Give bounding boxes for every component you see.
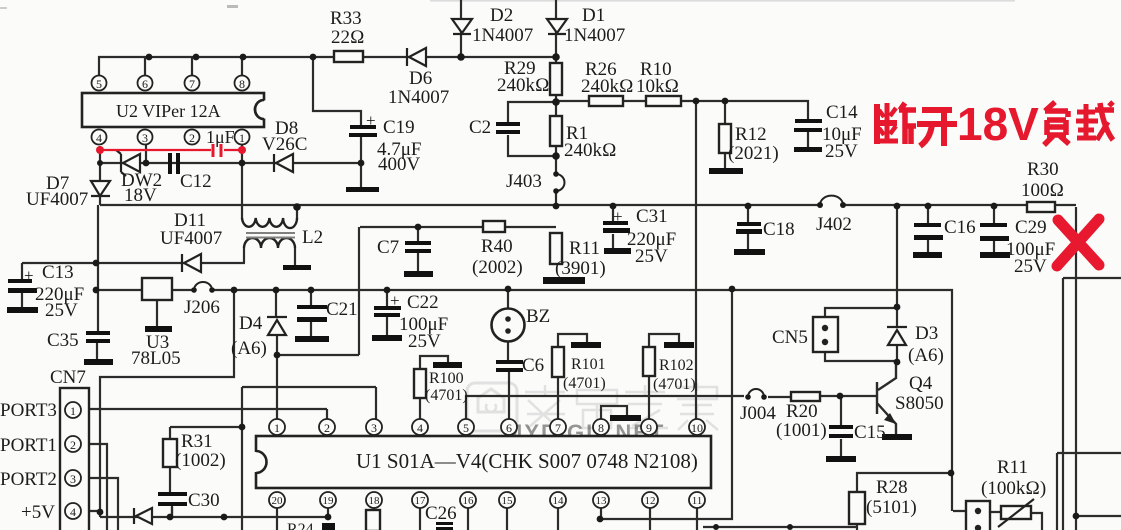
svg-text:(1001): (1001) xyxy=(776,420,827,441)
svg-text:(4701): (4701) xyxy=(425,387,468,404)
svg-text:L2: L2 xyxy=(302,227,323,248)
svg-text:C16: C16 xyxy=(944,217,976,238)
svg-text:1: 1 xyxy=(239,131,245,145)
svg-text:(3901): (3901) xyxy=(555,258,606,279)
svg-text:25V: 25V xyxy=(408,331,441,352)
svg-text:3: 3 xyxy=(371,421,377,435)
svg-text:R101: R101 xyxy=(571,356,606,373)
svg-text:D6: D6 xyxy=(409,68,432,89)
svg-text:J403: J403 xyxy=(506,171,542,192)
svg-text:J004: J004 xyxy=(740,403,776,424)
svg-text:V26C: V26C xyxy=(262,134,307,155)
svg-text:+5V: +5V xyxy=(21,502,55,523)
svg-text:(4701): (4701) xyxy=(563,375,606,392)
svg-text:10: 10 xyxy=(691,421,703,435)
svg-text:(2021): (2021) xyxy=(728,143,779,164)
svg-text:(A6): (A6) xyxy=(908,345,944,366)
svg-text:(100kΩ): (100kΩ) xyxy=(981,478,1046,499)
svg-text:6: 6 xyxy=(142,77,148,91)
svg-text:1: 1 xyxy=(274,421,280,435)
svg-text:4: 4 xyxy=(96,131,102,145)
svg-text:1N4007: 1N4007 xyxy=(564,25,625,46)
svg-text:11: 11 xyxy=(692,495,703,507)
svg-text:C2: C2 xyxy=(469,117,491,138)
svg-text:240kΩ: 240kΩ xyxy=(497,75,550,96)
svg-text:C14: C14 xyxy=(826,102,858,123)
svg-text:3: 3 xyxy=(142,131,148,145)
svg-text:J206: J206 xyxy=(184,297,220,318)
svg-text:U2 VIPer 12A: U2 VIPer 12A xyxy=(116,101,221,121)
svg-text:2: 2 xyxy=(70,438,76,452)
svg-text:C31: C31 xyxy=(636,206,668,227)
svg-text:+: + xyxy=(24,266,34,285)
svg-text:Q4: Q4 xyxy=(909,373,933,394)
svg-text:1N4007: 1N4007 xyxy=(388,87,449,108)
svg-text:CN5: CN5 xyxy=(772,327,808,348)
svg-text:400V: 400V xyxy=(378,154,421,175)
svg-text:2: 2 xyxy=(189,131,195,145)
svg-text:2: 2 xyxy=(324,421,330,435)
svg-text:16: 16 xyxy=(463,495,475,507)
svg-text:C13: C13 xyxy=(42,262,74,283)
svg-text:18V: 18V xyxy=(957,98,1039,150)
svg-text:(4701): (4701) xyxy=(653,376,696,393)
svg-text:D4: D4 xyxy=(239,313,263,334)
svg-text:5: 5 xyxy=(463,421,469,435)
svg-text:C35: C35 xyxy=(47,330,79,351)
svg-text:19: 19 xyxy=(323,495,335,507)
svg-text:15: 15 xyxy=(502,495,514,507)
svg-text:18: 18 xyxy=(369,495,381,507)
svg-text:240kΩ: 240kΩ xyxy=(581,76,634,97)
svg-text:D2: D2 xyxy=(490,5,513,26)
svg-text:8: 8 xyxy=(239,77,245,91)
svg-text:PORT3: PORT3 xyxy=(0,400,57,421)
svg-text:R11: R11 xyxy=(569,238,600,259)
svg-text:3: 3 xyxy=(70,472,76,486)
svg-text:(5101): (5101) xyxy=(866,497,917,518)
svg-text:BZ: BZ xyxy=(526,306,550,327)
svg-text:25V: 25V xyxy=(1014,256,1047,277)
svg-text:R30: R30 xyxy=(1027,159,1059,180)
svg-text:22Ω: 22Ω xyxy=(331,27,365,48)
svg-text:R102: R102 xyxy=(659,357,694,374)
svg-text:UF4007: UF4007 xyxy=(160,228,222,249)
svg-text:25V: 25V xyxy=(635,246,668,267)
svg-text:C12: C12 xyxy=(180,171,212,192)
svg-text:78L05: 78L05 xyxy=(131,348,181,369)
svg-text:C15: C15 xyxy=(854,422,886,443)
svg-text:7: 7 xyxy=(189,77,195,91)
svg-text:4: 4 xyxy=(70,505,76,519)
svg-text:R100: R100 xyxy=(429,370,464,387)
svg-text:6: 6 xyxy=(506,421,512,435)
svg-text:+: + xyxy=(613,207,623,226)
svg-text:100Ω: 100Ω xyxy=(1021,180,1064,201)
svg-text:C22: C22 xyxy=(407,292,439,313)
svg-text:7: 7 xyxy=(555,421,561,435)
svg-text:5: 5 xyxy=(96,77,102,91)
svg-text:+: + xyxy=(366,111,376,130)
svg-text:R31: R31 xyxy=(181,431,213,452)
svg-text:R11: R11 xyxy=(997,457,1028,478)
svg-text:U1 S01A—V4(CHK S007 0748 N2108: U1 S01A—V4(CHK S007 0748 N2108) xyxy=(356,449,698,473)
svg-text:C7: C7 xyxy=(377,237,399,258)
svg-text:4: 4 xyxy=(417,421,423,435)
svg-text:C29: C29 xyxy=(1015,217,1047,238)
svg-text:C18: C18 xyxy=(763,219,795,240)
svg-text:20: 20 xyxy=(272,495,284,507)
svg-text:D1: D1 xyxy=(582,5,605,26)
svg-text:13: 13 xyxy=(596,495,608,507)
svg-text:C6: C6 xyxy=(522,355,544,376)
svg-text:(A6): (A6) xyxy=(231,338,267,359)
svg-text:C21: C21 xyxy=(326,299,358,320)
svg-text:C30: C30 xyxy=(188,490,220,511)
svg-text:C26: C26 xyxy=(425,503,457,524)
svg-text:9: 9 xyxy=(646,421,652,435)
svg-text:R24: R24 xyxy=(287,521,314,530)
svg-text:PORT2: PORT2 xyxy=(0,469,57,490)
svg-text:R28: R28 xyxy=(876,477,908,498)
svg-text:1N4007: 1N4007 xyxy=(472,25,533,46)
svg-text:(1002): (1002) xyxy=(175,450,226,471)
svg-text:14: 14 xyxy=(553,495,565,507)
svg-text:S8050: S8050 xyxy=(895,393,944,414)
svg-text:25V: 25V xyxy=(825,141,858,162)
svg-text:1: 1 xyxy=(70,404,76,418)
svg-text:25V: 25V xyxy=(45,300,78,321)
svg-text:8: 8 xyxy=(598,421,604,435)
svg-text:R33: R33 xyxy=(330,8,362,29)
svg-text:10kΩ: 10kΩ xyxy=(636,76,679,97)
svg-text:18V: 18V xyxy=(124,185,157,206)
svg-text:+: + xyxy=(390,291,400,310)
svg-text:R40: R40 xyxy=(481,236,513,257)
svg-text:R20: R20 xyxy=(786,401,818,422)
svg-text:J402: J402 xyxy=(816,214,852,235)
svg-text:(2002): (2002) xyxy=(472,257,523,278)
svg-text:12: 12 xyxy=(645,495,656,507)
svg-text:R12: R12 xyxy=(735,124,767,145)
svg-text:PORT1: PORT1 xyxy=(0,435,57,456)
svg-text:C19: C19 xyxy=(383,117,415,138)
svg-text:CN7: CN7 xyxy=(50,367,86,388)
svg-text:D3: D3 xyxy=(915,323,938,344)
svg-text:UF4007: UF4007 xyxy=(26,189,88,210)
svg-text:240kΩ: 240kΩ xyxy=(564,140,617,161)
